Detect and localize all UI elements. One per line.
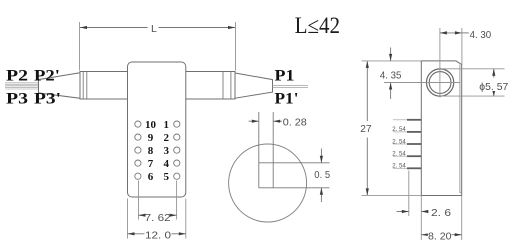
svg-text:P1: P1 xyxy=(275,68,295,85)
end view circle xyxy=(229,144,307,222)
svg-text:7. 62: 7. 62 xyxy=(145,212,171,224)
dimension phi 5.57 xyxy=(493,69,495,96)
dimension 4.35 xyxy=(390,48,392,100)
svg-text:ϕ5. 57: ϕ5. 57 xyxy=(479,81,508,93)
svg-text:7: 7 xyxy=(148,158,154,170)
svg-text:10: 10 xyxy=(145,119,157,131)
key slot vertical lines xyxy=(259,112,273,188)
pin numbers xyxy=(145,119,170,183)
pin pitch labels 2.54 xyxy=(392,126,406,169)
dimension 2.6 xyxy=(397,211,429,213)
dimension 4.30 xyxy=(440,32,469,34)
right boot xyxy=(235,73,273,98)
svg-text:5: 5 xyxy=(164,171,170,183)
dimension L arrowheads xyxy=(80,26,235,29)
svg-text:P3': P3' xyxy=(34,91,61,108)
side view body xyxy=(421,61,461,196)
bottom extension line xyxy=(362,194,422,196)
pin circles right column xyxy=(174,121,180,179)
svg-text:2: 2 xyxy=(164,132,170,144)
dimension 0.28 xyxy=(249,120,283,122)
left input fibers xyxy=(5,83,39,89)
center horizontal line xyxy=(384,82,460,84)
dimension 0.5 xyxy=(320,149,322,203)
key slot horizontal lines xyxy=(259,163,330,188)
svg-text:3: 3 xyxy=(164,145,170,157)
4.30 right extension line xyxy=(461,28,463,65)
dimension 27 xyxy=(366,61,368,196)
dimension L extension lines xyxy=(80,22,236,71)
ferrule inner circle xyxy=(429,72,451,94)
dimension 7.62 xyxy=(139,214,177,216)
right output fibers xyxy=(273,85,309,87)
svg-text:12. 0: 12. 0 xyxy=(145,230,171,242)
svg-text:P3: P3 xyxy=(6,91,28,108)
top extension line xyxy=(362,60,422,62)
svg-text:P2': P2' xyxy=(34,68,60,85)
pin circles left column xyxy=(135,121,141,179)
dimension 12.0 extension lines xyxy=(128,199,186,239)
svg-text:4: 4 xyxy=(164,158,170,170)
svg-text:2. 54: 2. 54 xyxy=(392,126,406,133)
side view inner edge xyxy=(460,65,462,193)
svg-text:6: 6 xyxy=(148,171,154,183)
svg-text:2. 6: 2. 6 xyxy=(431,207,451,219)
svg-text:L: L xyxy=(151,23,157,35)
ferrule outer circle xyxy=(426,69,453,96)
dimension L line xyxy=(80,27,235,29)
side view pins xyxy=(407,120,421,169)
svg-text:4. 35: 4. 35 xyxy=(380,70,402,82)
svg-text:4. 30: 4. 30 xyxy=(470,29,492,41)
svg-text:1: 1 xyxy=(164,119,170,131)
center vertical line xyxy=(439,28,441,98)
switch block xyxy=(128,62,186,197)
dimension 8.20 xyxy=(421,234,461,236)
left boot xyxy=(39,73,81,99)
dimension 2.6 extension lines xyxy=(409,171,462,241)
svg-text:0. 28: 0. 28 xyxy=(283,117,307,129)
svg-text:9: 9 xyxy=(148,132,154,144)
tube end cap lines xyxy=(83,72,231,100)
tube body xyxy=(80,72,235,100)
svg-text:8: 8 xyxy=(148,145,154,157)
dimension 12.0 xyxy=(128,233,186,235)
dimension phi 5.57 extension lines xyxy=(441,69,505,96)
svg-text:P1': P1' xyxy=(275,90,299,107)
dimension 7.62 extension lines xyxy=(139,181,177,220)
svg-text:0. 5: 0. 5 xyxy=(314,169,330,181)
svg-text:8. 20: 8. 20 xyxy=(428,230,452,242)
svg-text:2. 54: 2. 54 xyxy=(392,138,406,145)
svg-text:27: 27 xyxy=(360,123,371,135)
svg-text:2. 54: 2. 54 xyxy=(392,163,406,170)
svg-text:2. 54: 2. 54 xyxy=(392,150,406,157)
svg-text:P2: P2 xyxy=(6,68,28,85)
svg-text:L≤42: L≤42 xyxy=(295,13,341,38)
pin pitch extension lines xyxy=(393,120,407,169)
